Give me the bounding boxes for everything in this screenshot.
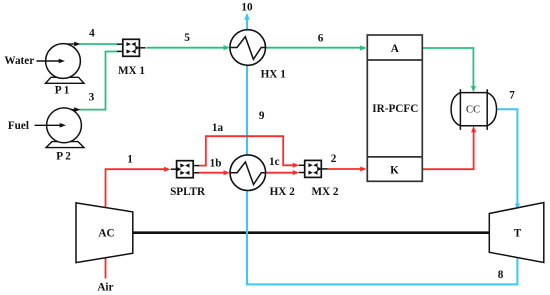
svg-text:MX 2: MX 2 (311, 186, 338, 198)
svg-text:Water: Water (4, 55, 34, 67)
svg-text:SPLTR: SPLTR (170, 186, 206, 198)
svg-text:Air: Air (97, 281, 113, 293)
svg-text:1b: 1b (210, 157, 222, 169)
svg-text:MX 1: MX 1 (118, 65, 145, 77)
svg-text:P 1: P 1 (55, 85, 70, 97)
svg-text:Fuel: Fuel (8, 120, 29, 132)
svg-text:5: 5 (184, 32, 190, 44)
svg-text:T: T (514, 228, 522, 240)
svg-text:1a: 1a (212, 122, 224, 134)
svg-text:7: 7 (509, 90, 515, 102)
svg-text:10: 10 (241, 2, 253, 14)
svg-text:P 2: P 2 (56, 150, 71, 162)
svg-text:HX 1: HX 1 (261, 69, 287, 81)
svg-text:9: 9 (259, 110, 265, 122)
svg-text:6: 6 (318, 32, 324, 44)
svg-text:3: 3 (89, 91, 95, 103)
svg-text:A: A (391, 43, 399, 55)
svg-text:HX 2: HX 2 (270, 186, 296, 198)
svg-text:1: 1 (127, 154, 133, 166)
svg-text:2: 2 (331, 153, 337, 165)
svg-text:AC: AC (98, 228, 114, 240)
svg-text:8: 8 (498, 269, 504, 281)
svg-text:IR-PCFC: IR-PCFC (372, 103, 418, 115)
svg-text:4: 4 (89, 27, 95, 39)
svg-text:CC: CC (466, 104, 480, 115)
svg-text:K: K (390, 164, 399, 176)
svg-text:1c: 1c (269, 156, 280, 168)
